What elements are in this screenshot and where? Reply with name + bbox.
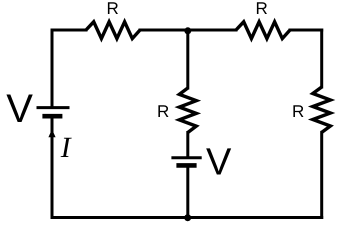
svg-text:V: V [206,142,232,184]
svg-text:R: R [255,0,267,18]
svg-text:R: R [106,0,118,18]
svg-text:V: V [6,87,33,131]
svg-text:I: I [60,132,72,164]
svg-text:R: R [292,102,304,121]
svg-text:R: R [157,102,169,121]
